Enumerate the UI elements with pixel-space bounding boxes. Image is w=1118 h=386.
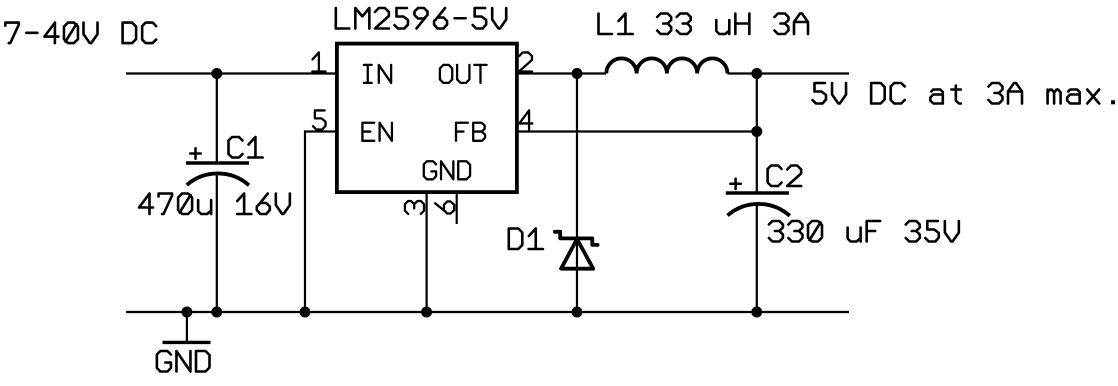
pin 3 number (rotated) (405, 201, 424, 214)
wire: D1 cathode vertical (576, 74, 578, 313)
label GND net (157, 351, 210, 372)
ground symbol (186, 312, 188, 342)
pin 1 number (312, 52, 325, 71)
diode D1 schottky (555, 232, 598, 245)
pin 2 name OUT (440, 65, 487, 83)
wire: FB pin 4 to output node (517, 130, 757, 132)
pin 4 number (519, 110, 532, 129)
node A: input junction dot at C1 top (211, 68, 222, 79)
C1 plus polarity mark (190, 148, 200, 158)
wire: bottom ground rail (126, 311, 849, 313)
wire: OUT pin 2 to inductor (517, 72, 606, 74)
wire: C2 vertical upper (756, 132, 758, 192)
wire: input top rail 7-40V (126, 72, 337, 74)
pin name GND inside box (424, 161, 470, 179)
wire: C1 vertical lower (216, 175, 218, 312)
label: 7-40V DC input (5, 23, 156, 44)
node: FB junction dot (751, 126, 762, 137)
label L1 33 uH 3A (599, 14, 809, 35)
pin 5 number (313, 110, 326, 129)
pin 6 number (rotated) (435, 201, 454, 213)
node: switch node junction dot (572, 68, 583, 79)
wire: pin 6 stub (456, 192, 458, 224)
pin 4 name FB (456, 123, 485, 141)
pin 1 name IN (364, 65, 391, 83)
wire: EN pin 5 to ground (305, 132, 337, 313)
capacitor C2 polarized 330uF 35V (726, 191, 789, 194)
inductor L1 33uH (606, 58, 727, 73)
IC U1: LM2596-5V regulator body (337, 44, 517, 193)
label D1 (509, 229, 543, 250)
wire: pin 3 to ground rail (426, 192, 428, 312)
label: LM2596-5V part name (336, 8, 506, 29)
C2 plus polarity mark (730, 179, 740, 189)
wire: C1 vertical upper (216, 74, 218, 162)
label C2 (768, 166, 802, 187)
wire: C2 vertical lower (756, 206, 758, 313)
node: output junction dot (751, 68, 762, 79)
label C1 (229, 137, 263, 158)
label C2 value 330 uF 35V (769, 221, 959, 242)
node: rail junction dots (181, 307, 192, 318)
pin 2 number (519, 52, 532, 71)
capacitor C1 polarized 470u 16V (186, 161, 249, 164)
label C1 value 470u 16V (139, 194, 290, 215)
pin 5 name EN (362, 123, 392, 141)
label: 5V DC at 3A max. output (813, 83, 1116, 104)
wire: inductor to output (728, 72, 850, 74)
